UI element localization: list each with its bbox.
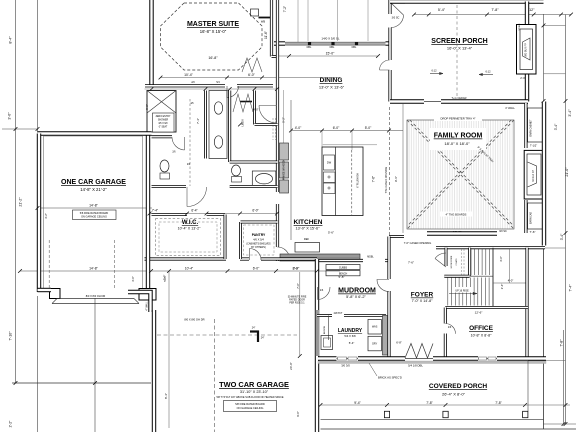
svg-text:PANTRY: PANTRY <box>252 233 266 237</box>
master closet rod dashed lines <box>272 118 274 140</box>
dimension line left outer x=15.5 <box>15 0 17 383</box>
one car garage east pilaster <box>139 289 156 301</box>
svg-text:24": 24" <box>261 337 265 340</box>
svg-text:4/6 X 5/4: 4/6 X 5/4 <box>253 238 264 242</box>
screen porch north screen line <box>405 3 527 5</box>
laundry sink inner <box>324 338 331 347</box>
bath dim line y=89 <box>145 88 278 90</box>
svg-text:KITCHEN: KITCHEN <box>294 219 323 226</box>
garage ceiling dashed vertical <box>214 319 216 432</box>
stair landing edge line <box>470 275 493 277</box>
svg-text:3'-4": 3'-4" <box>554 123 558 130</box>
laundry washer <box>368 320 381 335</box>
hall dim extension line <box>545 247 566 249</box>
WB closet bifold doors <box>242 58 262 72</box>
4in TNG boards note <box>440 212 472 217</box>
svg-text:42 DLX FP: 42 DLX FP <box>532 170 535 182</box>
svg-text:12": 12" <box>529 8 535 12</box>
svg-text:7'-4": 7'-4" <box>196 118 200 124</box>
svg-text:7'-6": 7'-6" <box>408 261 414 265</box>
porch column 2 <box>443 411 448 417</box>
foyer west wall upper <box>387 237 390 280</box>
family room east outer wall <box>542 102 546 246</box>
svg-text:DBL: DBL <box>330 46 335 49</box>
hall dashed line <box>189 99 191 186</box>
svg-text:DRY: DRY <box>372 343 377 346</box>
two car garage northwest corner wall <box>128 292 151 312</box>
window extension line 2 <box>337 0 339 41</box>
wall y=124.5 <box>255 123 278 126</box>
svg-text:5'-0": 5'-0" <box>163 276 167 282</box>
svg-text:5'-0": 5'-0" <box>293 267 299 271</box>
svg-text:7'-4": 7'-4" <box>152 209 158 213</box>
svg-text:7'-0" X 14'-8": 7'-0" X 14'-8" <box>412 299 433 303</box>
svg-text:7'-4": 7'-4" <box>569 284 573 292</box>
svg-text:6'-4": 6'-4" <box>191 209 197 213</box>
stair closet east wall <box>468 248 471 277</box>
svg-text:6:12: 6:12 <box>431 69 437 73</box>
family room built-in cabinet lower <box>528 203 543 229</box>
svg-text:DBL: DBL <box>307 46 312 49</box>
svg-text:3'-6": 3'-6" <box>500 284 504 290</box>
svg-text:5'-6": 5'-6" <box>328 231 334 235</box>
svg-text:13'-0" X 13'-6": 13'-0" X 13'-6" <box>319 85 345 90</box>
svg-text:CUBBS: CUBBS <box>339 266 348 269</box>
svg-text:5/8 TYP FLT 4X7 ABOVE SUB FLOO: 5/8 TYP FLT 4X7 ABOVE SUB FLOOR OF HEATE… <box>216 396 283 399</box>
svg-text:3'-2": 3'-2" <box>44 213 48 219</box>
stair upper treads <box>471 249 490 275</box>
kitchen door swing from hall <box>278 247 290 259</box>
OH door track dashed 2 <box>113 240 115 289</box>
dim tick line garage top-left <box>2 128 37 130</box>
dim line y=77.5 master suite south <box>161 77 341 79</box>
svg-text:SHOWER: SHOWER <box>158 120 169 122</box>
svg-text:14'-8": 14'-8" <box>89 204 98 208</box>
stair up label <box>452 287 472 293</box>
svg-text:OFFICE: OFFICE <box>469 325 493 332</box>
svg-text:BARN CAB: BARN CAB <box>530 212 533 224</box>
bath wall x=229.7 <box>228 91 231 163</box>
svg-text:4'-0": 4'-0" <box>253 108 258 112</box>
screen porch south wall west part <box>390 99 424 103</box>
svg-text:RANGE W/ HOOD: RANGE W/ HOOD <box>283 160 286 179</box>
family room tray ceiling dashed border <box>407 120 514 229</box>
dining to porch cabinet door swing <box>380 60 390 70</box>
svg-text:15'-0": 15'-0" <box>326 52 335 56</box>
one car garage ceiling lines <box>43 136 45 288</box>
water closet door swing <box>172 137 185 150</box>
bath interior wall x=205.5 <box>204 91 207 159</box>
svg-text:7'-8": 7'-8" <box>495 401 502 405</box>
closet stub wall y=101.5 <box>240 101 252 103</box>
closet wall stub WB <box>259 17 271 19</box>
svg-text:6:12: 6:12 <box>485 70 491 74</box>
south wall mudroom-foyer segment <box>358 356 405 360</box>
svg-text:7'-6": 7'-6" <box>530 230 536 234</box>
WIC shelving dashed <box>156 219 221 256</box>
master suite south wall east part <box>237 84 273 87</box>
svg-text:LINEN: LINEN <box>243 119 245 126</box>
kitchen-family jog wall <box>389 235 404 238</box>
kitchen island <box>322 147 363 216</box>
svg-text:8'-4": 8'-4" <box>164 393 168 399</box>
kitchen island overhang dashed <box>351 150 353 216</box>
svg-text:FOYER: FOYER <box>411 292 434 299</box>
svg-text:FAMILY ROOM: FAMILY ROOM <box>434 133 483 140</box>
kitchen dim extension x=352 <box>351 131 353 151</box>
office door swing <box>445 324 455 334</box>
window mullion post 1 <box>308 42 311 45</box>
svg-text:DROP PERIMETER TRAY 4": DROP PERIMETER TRAY 4" <box>441 117 476 121</box>
screen porch west wall upper <box>388 0 391 14</box>
kitchen west counter edge <box>290 100 292 240</box>
dim line in two car garage x=169 <box>168 271 170 428</box>
svg-text:14'-8" X 21'-2": 14'-8" X 21'-2" <box>80 187 107 192</box>
kitchen island counter edge <box>335 147 337 216</box>
svg-text:7'-6": 7'-6" <box>296 283 300 289</box>
screen porch west wall mid <box>388 28 391 61</box>
office west wall lower <box>444 334 447 359</box>
svg-text:13'-0" X 15'-6": 13'-0" X 15'-6" <box>296 227 321 231</box>
porch east edge line x=543.5 <box>543 249 545 429</box>
svg-text:3/0 3/0: 3/0 3/0 <box>341 364 350 368</box>
svg-text:3/0 SC: 3/0 SC <box>499 230 507 233</box>
svg-text:24'-0": 24'-0" <box>289 362 293 370</box>
WIC north wall east part <box>207 213 226 216</box>
svg-text:8'-4": 8'-4" <box>9 36 13 44</box>
brick ledge band under south wall <box>318 361 546 364</box>
svg-text:3'-4": 3'-4" <box>560 233 564 240</box>
dimension tick marks <box>14 127 18 131</box>
screen porch fireplace WD BUR <box>517 25 537 75</box>
svg-text:MDBL: MDBL <box>367 257 374 259</box>
dimension line right margin x=565.5 <box>565 15 567 425</box>
svg-text:5'-4": 5'-4" <box>438 8 446 12</box>
svg-text:9'-6": 9'-6" <box>394 176 398 182</box>
hall bath sink bowl <box>256 174 273 184</box>
svg-text:3'-0": 3'-0" <box>131 276 135 282</box>
stair direction arrow <box>449 293 477 295</box>
shower diagonal 2 <box>147 91 176 114</box>
hall bath south wall <box>230 185 278 188</box>
svg-text:4" WALL: 4" WALL <box>146 301 149 311</box>
one car garage west wall <box>37 134 41 293</box>
master suite octagon tray ceiling (dashed) <box>161 3 263 70</box>
svg-text:7'-8": 7'-8" <box>426 401 433 405</box>
svg-text:16'-8" X 15'-0": 16'-8" X 15'-0" <box>200 29 227 34</box>
stair and office east wall <box>525 248 528 359</box>
master vanity sink 1 <box>214 102 222 114</box>
svg-text:UP 16 RISE: UP 16 RISE <box>455 289 469 292</box>
svg-text:21'-0": 21'-0" <box>565 167 569 177</box>
master suite door swing <box>227 86 239 98</box>
family room label background <box>430 128 486 150</box>
garage east wall / WIC west wall <box>146 133 150 291</box>
linen closet bifold doors <box>233 94 253 112</box>
svg-text:10'-4": 10'-4" <box>185 267 194 271</box>
svg-text:10'-8" X 8'-8": 10'-8" X 8'-8" <box>471 334 492 338</box>
svg-text:5'-2": 5'-2" <box>282 117 286 123</box>
hall bath toilet <box>232 165 241 176</box>
dining dim line y=56 <box>278 55 379 57</box>
office windows <box>478 358 497 360</box>
svg-text:5'-0": 5'-0" <box>145 104 149 110</box>
svg-text:0" SEAT: 0" SEAT <box>159 126 168 129</box>
foyer west wall lower <box>387 291 390 359</box>
screen porch east wall upper <box>525 2 529 26</box>
south wall foyer-office segment <box>433 356 478 360</box>
kitchen west wall appliances <box>280 143 289 160</box>
WIC north wall west part <box>152 213 188 216</box>
screen porch north wall <box>390 0 544 4</box>
slope arrow 6:12 left <box>430 73 443 75</box>
kitchen island dishwasher DW <box>324 155 335 170</box>
kitchen west wall mid <box>276 204 279 247</box>
svg-text:TWO CAR GARAGE: TWO CAR GARAGE <box>219 380 289 389</box>
svg-text:6'-0": 6'-0" <box>253 267 260 271</box>
svg-text:2/8 PKT: 2/8 PKT <box>334 312 343 315</box>
garage center column marker <box>250 330 259 332</box>
family room tray diagonal 1 <box>407 120 514 229</box>
porch slab bottom edge y=429 <box>321 428 576 430</box>
svg-text:MUDROOM: MUDROOM <box>338 288 376 295</box>
svg-text:21'-2": 21'-2" <box>19 197 23 207</box>
svg-text:2'-2": 2'-2" <box>9 420 13 428</box>
stair east edge line <box>492 248 494 307</box>
dining north wall east end <box>386 41 391 45</box>
screen porch west wall lower <box>388 70 391 102</box>
linen east wall <box>253 91 256 125</box>
svg-text:HOOK ROBE: HOOK ROBE <box>451 255 453 268</box>
two car garage east wall <box>315 259 319 432</box>
svg-text:7'-8": 7'-8" <box>491 8 499 12</box>
mudroom north wall stub east <box>385 259 389 262</box>
laundry north wall east <box>344 314 386 317</box>
door from bath hall to WIC hall <box>186 187 188 207</box>
svg-text:3/0 SC: 3/0 SC <box>392 17 400 20</box>
foyer-mudroom door swing <box>377 280 389 292</box>
screen porch south wall east part <box>441 99 528 103</box>
svg-text:DBL: DBL <box>352 46 357 49</box>
master suite south wall west part <box>145 84 225 87</box>
pantry door swing <box>250 249 262 261</box>
family room floor edge line <box>402 104 404 233</box>
svg-text:ZERO ENTRY: ZERO ENTRY <box>156 116 171 118</box>
porch east inner edge line <box>527 361 529 411</box>
kitchen dim extension x=322 <box>321 131 323 148</box>
two car garage west wall <box>152 310 156 432</box>
office west wall upper <box>444 308 447 324</box>
svg-text:5'-0": 5'-0" <box>365 126 372 130</box>
svg-text:BROOM: BROOM <box>324 326 326 334</box>
svg-text:6'-0": 6'-0" <box>252 209 258 213</box>
pantry north wall <box>241 221 278 224</box>
svg-text:3'-0": 3'-0" <box>8 112 12 120</box>
svg-text:4" WALL: 4" WALL <box>505 107 515 110</box>
svg-text:31'-10" X 23'-10": 31'-10" X 23'-10" <box>240 390 269 394</box>
family room east inner wall upper <box>524 103 527 148</box>
family room firebox <box>528 162 537 187</box>
office north wall <box>445 306 528 309</box>
svg-text:6" FLUSH OH: 6" FLUSH OH <box>358 173 360 188</box>
svg-text:7'-10": 7'-10" <box>9 331 13 341</box>
stair north wall <box>436 246 545 249</box>
svg-text:3'-4": 3'-4" <box>568 109 572 117</box>
svg-text:COVERED PORCH: COVERED PORCH <box>429 383 487 390</box>
bottom right dim line y=424 <box>544 423 576 425</box>
svg-text:T+G CEDAR: T+G CEDAR <box>452 96 467 100</box>
kitchen south counter <box>280 254 360 261</box>
svg-text:5/8 FIRE RATED BOARD: 5/8 FIRE RATED BOARD <box>235 402 265 406</box>
svg-text:DINING: DINING <box>320 77 343 84</box>
svg-text:SCREEN PORCH: SCREEN PORCH <box>431 38 487 45</box>
svg-text:4'-0": 4'-0" <box>508 279 514 283</box>
kitchen dimension line y=130.5 <box>291 130 403 132</box>
porch column 3 <box>523 411 528 417</box>
family room fireplace inner <box>527 154 541 195</box>
family room tray diagonal 2 <box>407 120 514 229</box>
window mullion post 2 <box>331 42 334 45</box>
water closet north wall <box>152 135 173 138</box>
svg-text:7'-6": 7'-6" <box>372 176 376 182</box>
master vanity <box>209 91 227 159</box>
dim line right lower x=563.5 <box>563 330 565 424</box>
family room east inner wall lower <box>524 200 527 233</box>
svg-text:6'-0": 6'-0" <box>333 126 340 130</box>
foyer french doors <box>405 344 433 359</box>
garage ceiling dashed horizontal <box>157 334 297 336</box>
dim line mudroom offset x=299.8 <box>299 272 301 356</box>
svg-text:9'-4": 9'-4" <box>354 401 361 405</box>
one car garage overhead door recess <box>57 298 134 300</box>
svg-text:5/4 1/8 DBL: 5/4 1/8 DBL <box>408 364 423 368</box>
svg-text:6'-8": 6'-8" <box>396 341 402 345</box>
wall pantry south stub <box>240 257 249 260</box>
wall kitchen south west part <box>261 257 317 260</box>
svg-text:REF: REF <box>304 237 310 241</box>
chase dim line x=283.5 <box>283 90 285 186</box>
family room built-in cabinet upper <box>528 108 543 142</box>
slope arrow 6:12 right <box>479 74 493 76</box>
hall bath vanity <box>252 171 275 187</box>
dining north window band <box>285 42 386 45</box>
dim line right of south wall <box>528 360 566 362</box>
svg-text:8/0 X 8/0 OH DR: 8/0 X 8/0 OH DR <box>86 294 106 298</box>
dim line right of screen porch <box>543 14 545 101</box>
laundry sink <box>321 336 333 350</box>
one car garage inner dim line y=208 <box>37 207 152 209</box>
svg-text:3/6 X 9/0: 3/6 X 9/0 <box>158 123 168 125</box>
OH door track dashed 1 <box>48 240 50 289</box>
pantry shelving dashed <box>244 225 275 255</box>
svg-text:5'-4": 5'-4" <box>349 341 355 345</box>
svg-text:24": 24" <box>252 327 256 330</box>
stair landing wall <box>444 275 469 278</box>
svg-text:WB: WB <box>261 20 265 24</box>
porch column 1 <box>384 411 389 417</box>
mudroom bench <box>326 271 360 276</box>
master vanity sink 2 <box>214 136 222 148</box>
screen porch ridge dashed line <box>456 5 458 98</box>
svg-text:BRICK AS SPEC'D: BRICK AS SPEC'D <box>378 376 402 380</box>
dim extension line x=298 <box>297 0 299 42</box>
family room south wall <box>427 231 497 235</box>
chase stub wall y=56.5 <box>272 55 278 58</box>
drop perimeter tray note <box>434 116 482 122</box>
kitchen west wall stub <box>276 259 279 261</box>
one car garage south wall west pilaster <box>50 289 61 299</box>
master suite east wall <box>270 0 273 57</box>
svg-text:12'-6": 12'-6" <box>475 311 483 315</box>
bath dim line y=213.5 <box>150 213 278 215</box>
svg-text:26'-4" X 8'-0": 26'-4" X 8'-0" <box>442 392 466 397</box>
svg-text:16'-8": 16'-8" <box>208 56 218 60</box>
south wall east segment <box>497 356 546 360</box>
svg-text:4" TNG BOARDS: 4" TNG BOARDS <box>446 213 467 217</box>
kitchen island double sink <box>324 172 336 183</box>
water closet toilet <box>160 160 169 172</box>
svg-text:14/0 X 5/0 SL: 14/0 X 5/0 SL <box>321 37 340 41</box>
stair closet door swing <box>435 253 446 267</box>
svg-text:BY OTHERS): BY OTHERS) <box>251 246 266 249</box>
dimension line top right y=14.5 <box>414 14 571 16</box>
window mullion post 3 <box>355 42 358 45</box>
pantry west wall <box>239 222 242 259</box>
porch slab edge y=419.3 <box>321 418 544 420</box>
screen porch fireplace inner <box>520 29 533 70</box>
shower label box <box>153 113 175 132</box>
kitchen west wall x=277.5 upper <box>276 0 279 192</box>
dining north wall west end <box>274 41 285 45</box>
screen porch east wall lower <box>525 74 529 102</box>
svg-text:4'-0": 4'-0" <box>295 126 302 130</box>
brick as specd callout <box>369 363 377 376</box>
svg-text:WD BUR FP: WD BUR FP <box>525 43 528 57</box>
svg-text:10'-4" X 13'-2": 10'-4" X 13'-2" <box>178 227 201 231</box>
fireplace bottom extension line <box>544 73 566 75</box>
svg-text:THE CASED OPENING: THE CASED OPENING <box>385 167 388 194</box>
mudroom north wall <box>317 259 363 262</box>
svg-text:7'-8": 7'-8" <box>560 339 564 347</box>
dimension line y=271 under WIC and garage <box>20 270 340 272</box>
family room tray ceiling hatch <box>407 120 514 229</box>
WIC east wall <box>224 215 227 260</box>
dimension line left inner upper <box>37 0 39 133</box>
wall under WIC y=259 <box>145 257 227 260</box>
svg-text:ONE CAR GARAGE: ONE CAR GARAGE <box>61 179 126 186</box>
stair closet west wall <box>445 248 448 266</box>
svg-text:5'-8": 5'-8" <box>339 275 345 279</box>
kitchen refrigerator box <box>295 243 320 253</box>
svg-text:8/0 X 8/0 OH DR: 8/0 X 8/0 OH DR <box>184 318 204 322</box>
svg-text:9'-0": 9'-0" <box>296 411 300 417</box>
stair dim lines right <box>509 249 511 283</box>
family room fireplace 42 DLX <box>524 150 544 199</box>
svg-text:DW: DW <box>327 162 332 165</box>
svg-text:PER R302.5.1: PER R302.5.1 <box>289 302 305 305</box>
laundry broom closet <box>328 316 330 341</box>
svg-text:18'-0" X 18'-0": 18'-0" X 18'-0" <box>444 141 470 146</box>
svg-text:10'-4": 10'-4" <box>184 73 193 77</box>
zero entry shower <box>147 91 176 133</box>
garage east wall brick hatch segment <box>316 310 319 356</box>
driveway edge line y=383 <box>12 382 151 384</box>
svg-text:W.I.C.: W.I.C. <box>182 220 199 226</box>
porch dim line y=405 <box>321 404 571 406</box>
svg-text:STONE: STONE <box>519 23 521 31</box>
svg-text:14'-8": 14'-8" <box>89 267 98 271</box>
two car garage fire-rating note box <box>224 401 277 412</box>
